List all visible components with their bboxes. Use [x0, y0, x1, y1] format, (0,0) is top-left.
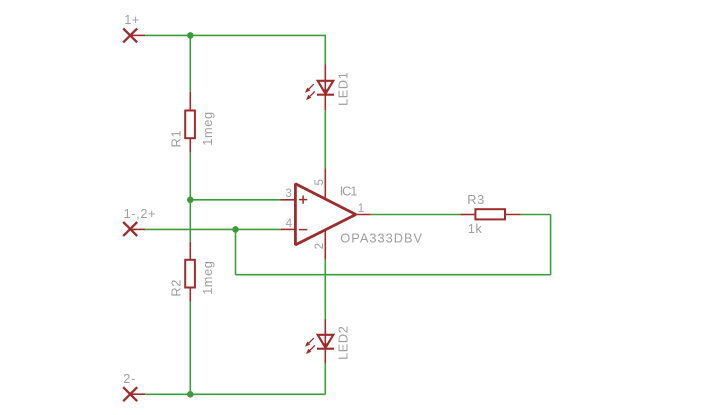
LED1 anode lead [324, 65, 326, 81]
wire LED1 to pin5 [324, 110, 326, 168]
LED2 anode lead [324, 319, 326, 335]
junction feedback [232, 226, 239, 233]
wire pin1 to R3 [371, 214, 461, 216]
pin connector X 2- [123, 387, 137, 401]
svg-text:1meg: 1meg [200, 111, 215, 145]
wire LED2 to bottom [324, 363, 326, 394]
pin 1 stub [355, 214, 371, 216]
svg-text:2: 2 [314, 243, 326, 249]
wire mid horizontal [145, 228, 280, 230]
wire left vertical upper [189, 35, 191, 91]
op-amp IC1 [295, 184, 355, 245]
svg-text:R1: R1 [169, 130, 184, 148]
pin 2 stub [324, 230, 326, 259]
svg-text:1+: 1+ [124, 12, 140, 27]
svg-text:3: 3 [285, 188, 291, 200]
wire pin2 to LED2 [324, 259, 326, 319]
LED1 [305, 81, 334, 100]
svg-text:1: 1 [358, 203, 364, 215]
svg-text:2-: 2- [123, 371, 136, 386]
resistor R2 [185, 260, 195, 288]
wire R3 to corner [521, 214, 551, 216]
pin 3 stub [280, 199, 295, 201]
svg-text:4: 4 [286, 218, 293, 230]
svg-text:1meg: 1meg [200, 260, 215, 294]
svg-text:OPA333DBV: OPA333DBV [340, 230, 423, 245]
op-amp plus input mark [299, 195, 307, 203]
LED1 cathode lead [324, 95, 326, 111]
resistor R1 lead bottom [189, 139, 191, 153]
resistor R3 lead right [505, 214, 521, 216]
junction divider mid [187, 197, 194, 204]
wire feedback vertical right [550, 215, 552, 275]
wire feedback bottom [236, 274, 551, 276]
svg-text:LED2: LED2 [336, 325, 351, 359]
svg-text:R3: R3 [467, 192, 485, 207]
junction bottom [187, 391, 194, 398]
wire divider to pin3 [190, 199, 280, 201]
resistor R2 lead bottom [189, 288, 191, 302]
LED2 [305, 335, 334, 354]
LED2 cathode lead [324, 349, 326, 364]
resistor R1 [185, 111, 195, 139]
wire top horizontal [145, 34, 325, 36]
pin stub 1+ [130, 34, 145, 36]
resistor R3 lead left [461, 214, 476, 216]
pin connector X 1-,2+ [123, 222, 137, 236]
svg-text:R2: R2 [169, 279, 184, 297]
wire R1 to R2 [189, 152, 191, 241]
wire R2 to bottom [189, 302, 191, 394]
resistor R1 lead top [189, 92, 191, 110]
svg-text:LED1: LED1 [336, 71, 351, 105]
pin stub 1-,2+ [130, 228, 145, 230]
junction top [187, 32, 194, 39]
svg-text:1-,2+: 1-,2+ [124, 206, 157, 221]
resistor R3 [475, 209, 505, 219]
wire feedback vertical left [235, 229, 237, 274]
svg-text:IC1: IC1 [340, 184, 357, 199]
pin connector X 1+ [123, 28, 137, 42]
svg-text:5: 5 [314, 179, 326, 185]
pin 5 stub [324, 168, 326, 199]
svg-text:1k: 1k [468, 221, 483, 236]
pin stub 2- [130, 393, 145, 395]
wire bottom horizontal [145, 393, 325, 395]
wire top right vertical [324, 35, 326, 65]
op-amp minus input mark [299, 229, 307, 231]
wire R2 top lead [189, 242, 191, 260]
pin 4 stub [280, 228, 295, 230]
